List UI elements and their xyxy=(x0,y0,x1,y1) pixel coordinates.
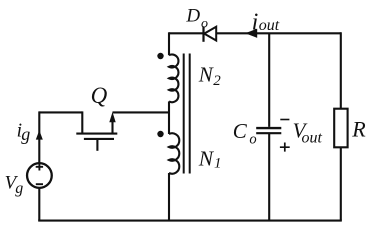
wire: Vg bottom lead xyxy=(38,188,40,221)
node dot: N1 winding polarity dot xyxy=(157,131,163,137)
arrowhead: MOSFET source arrow xyxy=(109,112,115,122)
wire: right rail lower (resistor to bottom rail) xyxy=(340,147,342,220)
svg-text:g: g xyxy=(21,124,30,144)
svg-text:C: C xyxy=(233,119,248,143)
svg-text:i: i xyxy=(252,9,259,35)
wire: capacitor branch upper xyxy=(268,33,270,127)
minus sign inside source xyxy=(36,183,43,185)
capacitor Co top plate xyxy=(256,127,281,129)
wire: transformer bottom vertical xyxy=(168,173,170,221)
wire: transformer mid vertical (N2 bottom to N1 top, junction with MOSFET wire) xyxy=(168,101,170,134)
svg-text:o: o xyxy=(201,17,208,32)
node dot: N2 winding polarity dot xyxy=(157,53,163,59)
winding N2 (4 turns) xyxy=(169,54,178,102)
wire: top rail left segment (transformer top to diode) xyxy=(169,32,203,34)
diode Do cathode bar xyxy=(202,26,204,42)
diode Do triangle xyxy=(204,27,216,41)
wire: left rail top horizontal (Vg to MOSFET drain) xyxy=(39,111,82,113)
wire: right rail upper (top corner to resistor) xyxy=(340,32,342,108)
svg-text:out: out xyxy=(259,17,280,34)
arrowhead: ig current arrow on left rail xyxy=(36,130,43,139)
transformer primary-side vertical wire top xyxy=(168,32,170,55)
winding N1 (3 turns) xyxy=(169,133,179,173)
minus sign of Vout polarity xyxy=(280,119,289,121)
resistor R body xyxy=(334,109,347,148)
svg-text:N: N xyxy=(198,62,214,86)
svg-text:2: 2 xyxy=(213,73,221,89)
plus sign of Vout polarity xyxy=(280,143,290,152)
svg-text:D: D xyxy=(185,5,200,26)
transistor Q gate stub xyxy=(96,139,98,151)
transistor Q (MOSFET) drain lead xyxy=(81,111,83,133)
svg-text:o: o xyxy=(249,132,256,148)
transformer core (double bar) xyxy=(184,54,190,174)
wire: left rail vertical (Vg top lead, carries ig) xyxy=(38,111,40,163)
wire: capacitor branch lower xyxy=(268,133,270,220)
wire: MOSFET source to transformer (y=112.4) xyxy=(113,111,170,113)
transistor Q gate bar xyxy=(84,138,114,140)
svg-text:out: out xyxy=(302,130,323,147)
transistor Q source arrow shaft xyxy=(111,118,113,134)
svg-text:N: N xyxy=(198,147,215,171)
wire: bottom rail xyxy=(38,220,342,222)
svg-text:R: R xyxy=(351,117,366,142)
source V_g (circle symbol) xyxy=(27,163,52,188)
svg-text:Q: Q xyxy=(91,83,108,108)
svg-text:1: 1 xyxy=(214,156,222,172)
capacitor Co bottom plate xyxy=(256,132,281,134)
transistor Q channel bar xyxy=(76,133,117,135)
svg-text:g: g xyxy=(15,180,23,197)
arrowhead: iout current arrow on top rail xyxy=(245,29,257,38)
wire: top rail right segment (diode to top-right corner) xyxy=(216,32,341,34)
plus sign inside source xyxy=(36,163,43,170)
